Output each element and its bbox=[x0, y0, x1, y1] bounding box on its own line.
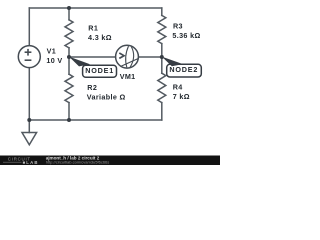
svg-text:4.3 kΩ: 4.3 kΩ bbox=[88, 33, 112, 42]
svg-text:■LAB: ■LAB bbox=[23, 160, 39, 165]
svg-text:5.36 kΩ: 5.36 kΩ bbox=[172, 31, 200, 40]
svg-text:NODE2: NODE2 bbox=[169, 65, 198, 74]
svg-text:R3: R3 bbox=[173, 22, 183, 31]
svg-text:10 V: 10 V bbox=[46, 56, 62, 65]
svg-text:7 kΩ: 7 kΩ bbox=[173, 92, 190, 101]
svg-text:R4: R4 bbox=[173, 83, 183, 92]
svg-text:NODE1: NODE1 bbox=[85, 66, 114, 75]
svg-text:Variable Ω: Variable Ω bbox=[87, 93, 126, 102]
svg-text:http://circuitlab.com/cvam3u5f: http://circuitlab.com/cvam3u5f6c66s bbox=[46, 160, 110, 165]
svg-text:R1: R1 bbox=[88, 24, 98, 33]
svg-text:VM1: VM1 bbox=[120, 72, 136, 81]
svg-text:V1: V1 bbox=[47, 47, 57, 56]
svg-text:R2: R2 bbox=[87, 83, 97, 92]
